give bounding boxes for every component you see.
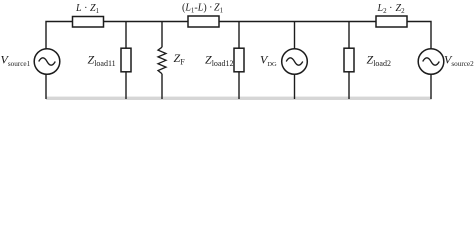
source Vsource1 circle: [34, 49, 60, 75]
svg-text:Vsource2: Vsource2: [444, 53, 474, 69]
wire drop Zload12 bottom: [238, 72, 240, 99]
wire drop VDG top: [294, 22, 296, 49]
svg-text:Zload2: Zload2: [367, 53, 391, 69]
svg-text:(L1-L) ·Z1: (L1-L) ·Z1: [182, 3, 224, 15]
load box Zload11: [121, 48, 131, 72]
source Vsource2 circle: [418, 49, 444, 75]
wire top bus: source1 to box L*Z1: [46, 22, 73, 49]
source VDG sine: [286, 58, 303, 65]
resistor box L2*Z2: [376, 16, 407, 27]
svg-text:Zload11: Zload11: [88, 53, 116, 69]
svg-text:Vsource1: Vsource1: [1, 53, 31, 69]
resistor ZF zigzag: [158, 47, 166, 74]
wire top bus: box (L1-L)*Z1 to box L2*Z2: [219, 21, 376, 23]
svg-text:L2 ·Z2: L2 ·Z2: [377, 3, 406, 15]
resistor box (L1-L)*Z1: [188, 16, 219, 27]
source VDG circle: [282, 49, 308, 75]
wire drop VDG bottom: [294, 74, 296, 99]
resistor box L*Z1: [73, 17, 104, 28]
wire drop ZF bottom: [161, 74, 163, 99]
svg-text:L ·Z1: L ·Z1: [75, 3, 100, 15]
source Vsource2 sine: [423, 58, 440, 65]
svg-text:ZF: ZF: [174, 51, 186, 67]
wire drop Zload2 top: [348, 22, 350, 49]
wire Vsource1 bottom: [45, 74, 47, 99]
wire drop ZF top: [161, 22, 163, 48]
wire top bus: box L2*Z2 to source2: [407, 22, 431, 49]
wire Vsource2 bottom: [430, 74, 432, 99]
load box Zload12: [234, 48, 244, 72]
wire drop Zload2 bottom: [348, 72, 350, 99]
wire drop Zload11 bottom: [125, 72, 127, 99]
wire drop Zload11 top: [125, 22, 127, 49]
svg-text:VDG: VDG: [260, 53, 277, 69]
svg-text:Zload12: Zload12: [205, 53, 233, 69]
source Vsource1 sine: [39, 58, 56, 65]
wire top bus: box L*Z1 to box (L1-L)*Z1: [104, 21, 189, 23]
wire drop Zload12 top: [238, 22, 240, 49]
load box Zload2: [344, 48, 354, 72]
bottom ground bus (gray): [46, 97, 432, 100]
